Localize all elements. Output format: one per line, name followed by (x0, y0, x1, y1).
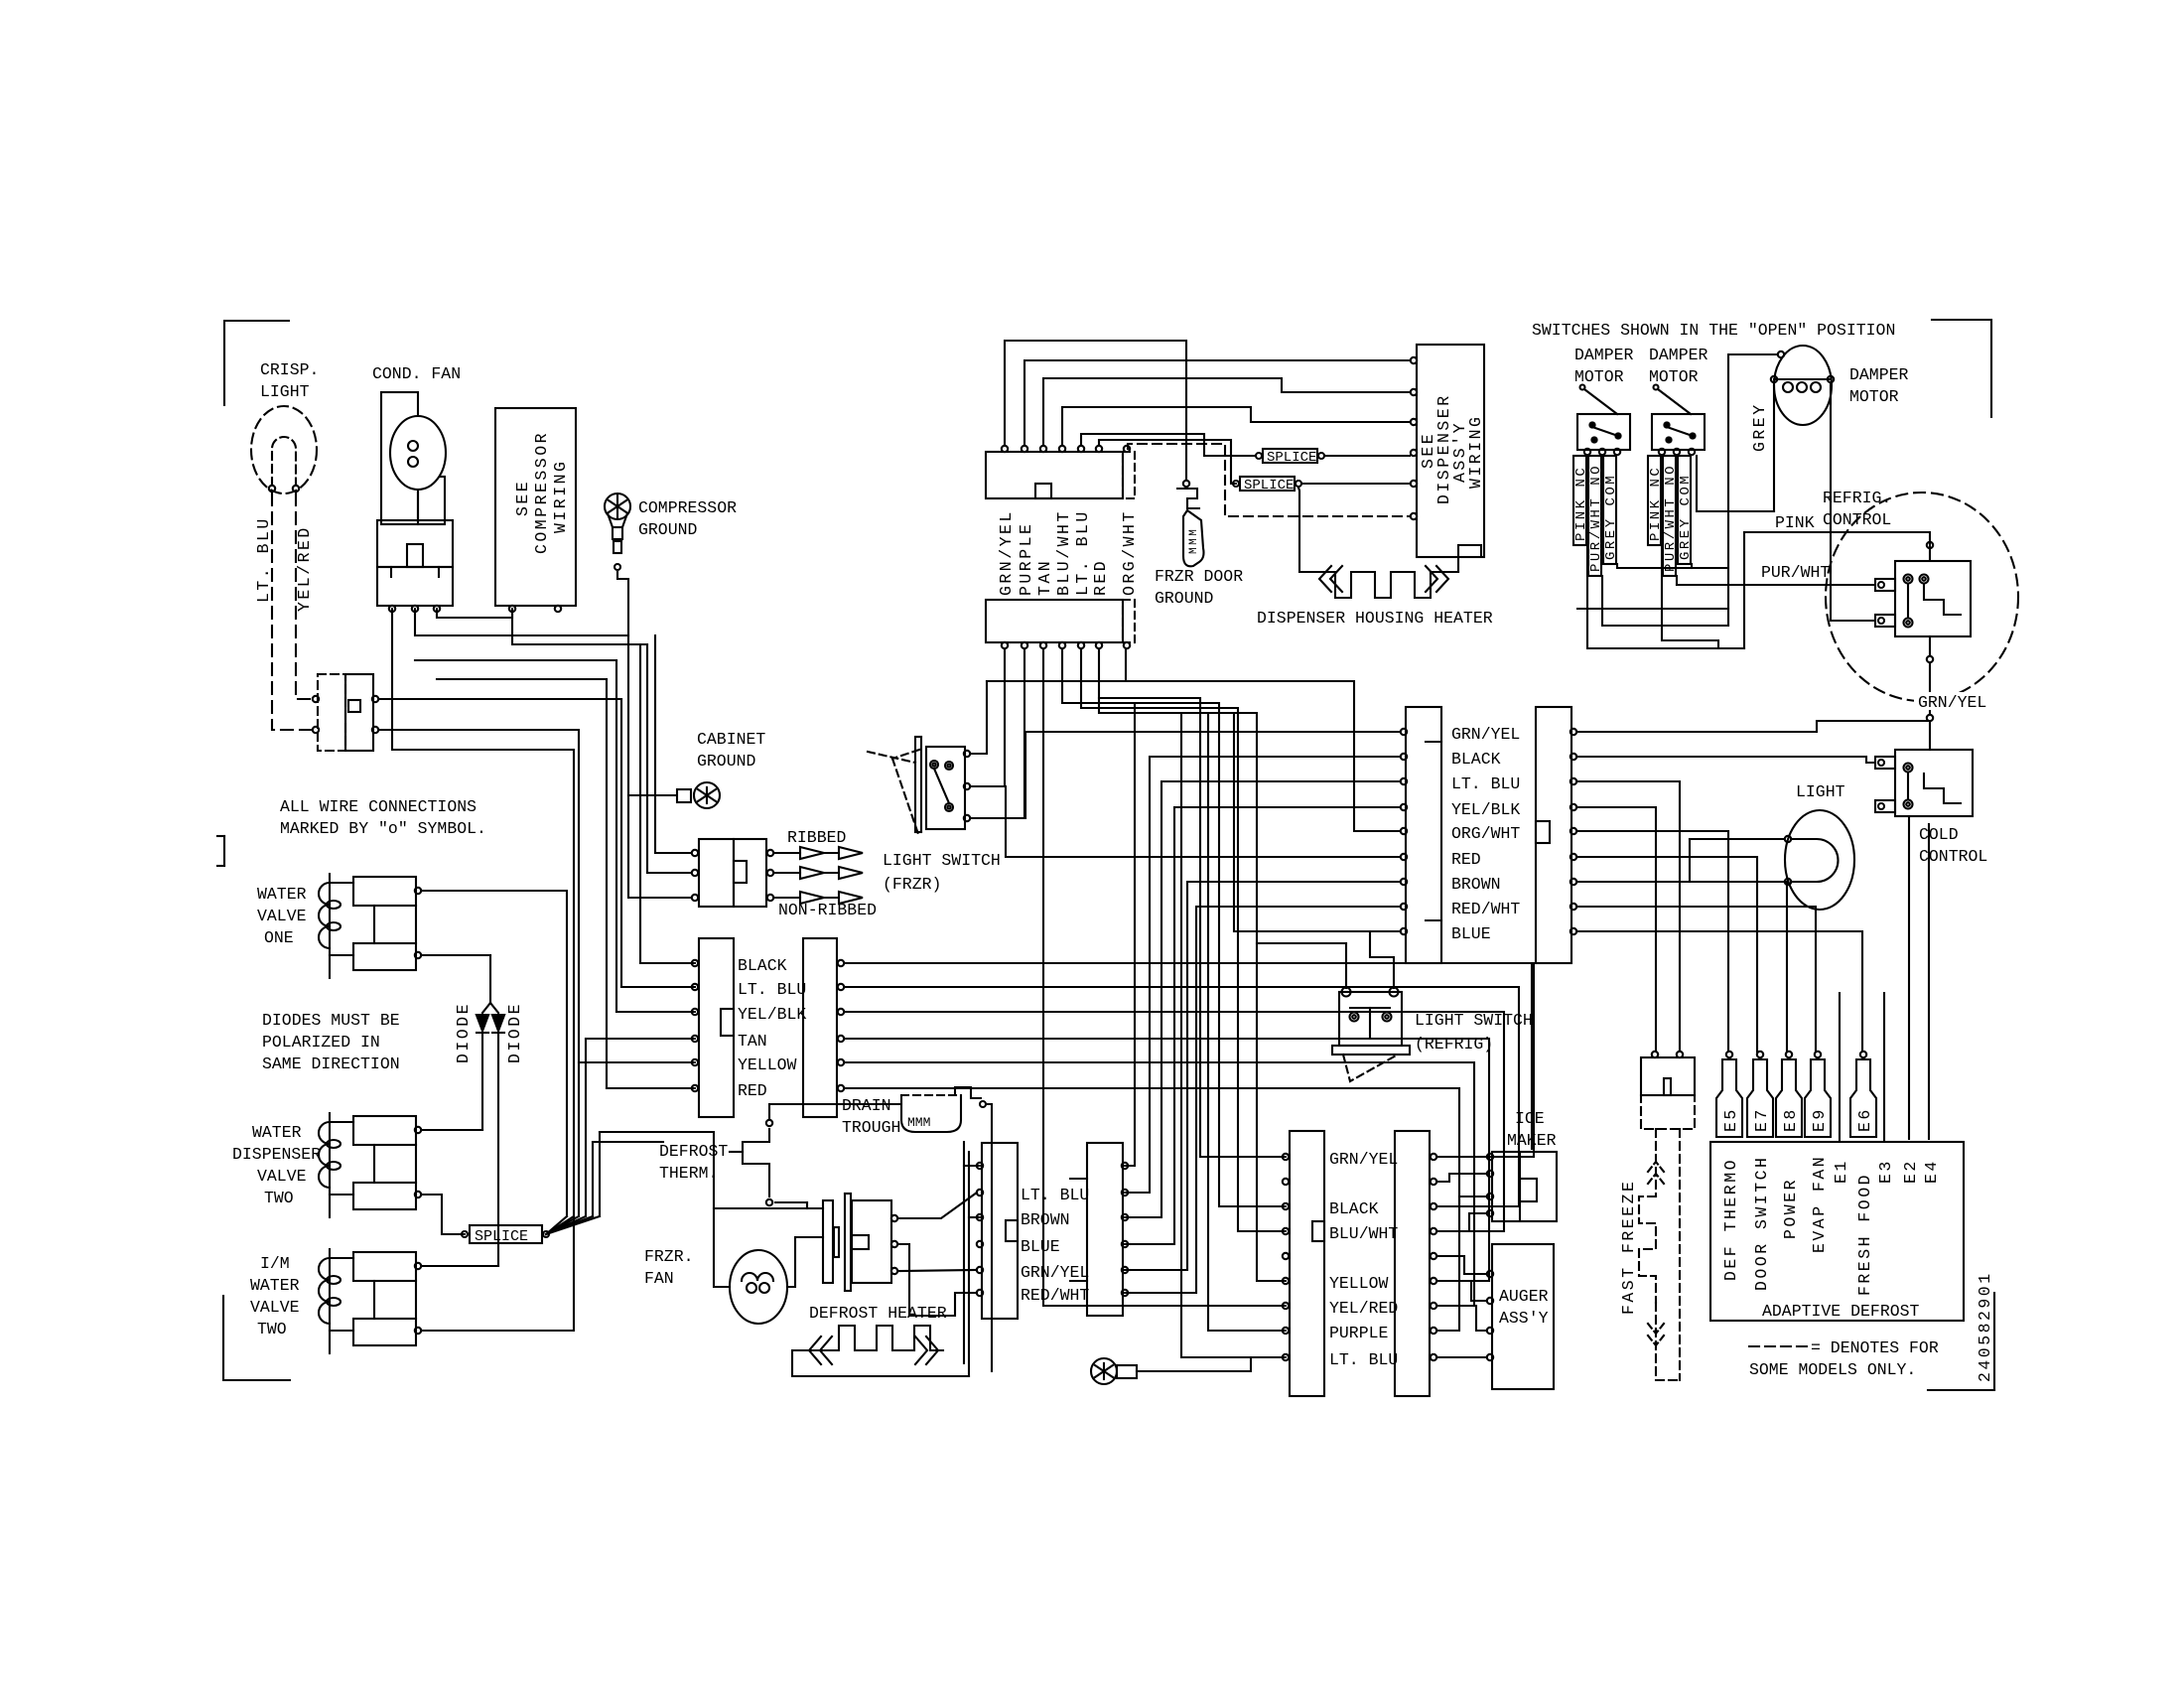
svg-text:POWER: POWER (1781, 1178, 1800, 1239)
svg-text:RIBBED: RIBBED (787, 828, 847, 847)
svg-text:MMM: MMM (1188, 527, 1200, 554)
svg-text:THERM.: THERM. (659, 1164, 718, 1183)
svg-text:WIRING: WIRING (551, 460, 570, 533)
svg-text:RED/WHT: RED/WHT (1021, 1286, 1089, 1305)
svg-text:FRZR DOOR: FRZR DOOR (1155, 567, 1243, 586)
svg-text:CABINET: CABINET (697, 730, 765, 749)
svg-text:LIGHT: LIGHT (260, 382, 310, 401)
svg-text:DAMPER: DAMPER (1649, 346, 1708, 364)
svg-text:SPLICE: SPLICE (1267, 450, 1316, 466)
svg-text:(REFRIG): (REFRIG) (1415, 1035, 1493, 1054)
svg-text:BROWN: BROWN (1021, 1210, 1070, 1229)
svg-text:DISPENSER: DISPENSER (232, 1145, 321, 1164)
svg-text:E8: E8 (1781, 1107, 1800, 1132)
svg-text:E5: E5 (1721, 1107, 1740, 1132)
svg-text:WATER: WATER (250, 1276, 300, 1295)
svg-text:DAMPER: DAMPER (1574, 346, 1634, 364)
svg-text:WATER: WATER (257, 885, 307, 904)
svg-text:GRN/YEL: GRN/YEL (997, 509, 1016, 596)
svg-text:I/M: I/M (260, 1254, 290, 1273)
svg-text:E6: E6 (1855, 1107, 1874, 1132)
svg-text:POLARIZED IN: POLARIZED IN (262, 1033, 380, 1052)
svg-text:ICE: ICE (1515, 1109, 1545, 1128)
svg-text:DIODE: DIODE (454, 1002, 473, 1063)
svg-text:SPLICE: SPLICE (1244, 478, 1294, 493)
svg-text:COMPRESSOR: COMPRESSOR (638, 498, 737, 517)
svg-text:GROUND: GROUND (1155, 589, 1214, 608)
svg-text:PUR/WHT: PUR/WHT (1761, 563, 1830, 582)
svg-text:CRISP.: CRISP. (260, 360, 319, 379)
svg-text:LT. BLU: LT. BLU (1451, 774, 1520, 793)
svg-text:SOME MODELS ONLY.: SOME MODELS ONLY. (1749, 1360, 1916, 1379)
svg-text:LIGHT: LIGHT (1796, 782, 1845, 801)
svg-text:DISPENSER HOUSING HEATER: DISPENSER HOUSING HEATER (1257, 609, 1493, 628)
svg-text:E4: E4 (1922, 1159, 1941, 1184)
svg-text:GROUND: GROUND (638, 520, 698, 539)
svg-text:DEFROST HEATER: DEFROST HEATER (809, 1304, 947, 1323)
svg-text:PINK NC: PINK NC (1573, 466, 1589, 541)
svg-text:240582901: 240582901 (1976, 1271, 1994, 1382)
svg-text:PUR/WHT NO: PUR/WHT NO (1588, 464, 1604, 572)
svg-text:ORG/WHT: ORG/WHT (1120, 509, 1139, 596)
svg-text:WATER: WATER (252, 1123, 302, 1142)
svg-text:VALVE: VALVE (250, 1298, 300, 1317)
svg-text:BLACK: BLACK (1451, 750, 1501, 769)
svg-text:DAMPER: DAMPER (1849, 365, 1909, 384)
svg-text:FAN: FAN (644, 1269, 674, 1288)
svg-text:COMPRESSOR: COMPRESSOR (532, 431, 551, 554)
svg-text:E3: E3 (1876, 1159, 1895, 1184)
svg-text:BLU/WHT: BLU/WHT (1329, 1224, 1398, 1243)
svg-text:YELLOW: YELLOW (738, 1055, 797, 1074)
svg-text:DIODE: DIODE (505, 1002, 524, 1063)
svg-text:BROWN: BROWN (1451, 875, 1501, 894)
svg-text:GRN/YEL: GRN/YEL (1918, 693, 1986, 712)
svg-text:BLACK: BLACK (738, 956, 787, 975)
svg-text:GREY COM: GREY COM (1603, 474, 1619, 560)
svg-text:RED: RED (738, 1081, 767, 1100)
svg-text:YEL/BLK: YEL/BLK (738, 1005, 806, 1024)
svg-text:LT. BLU: LT. BLU (1329, 1350, 1398, 1369)
svg-text:DEFROST: DEFROST (659, 1142, 728, 1161)
svg-text:LT. BLU: LT. BLU (1073, 509, 1092, 596)
svg-text:YELLOW: YELLOW (1329, 1274, 1389, 1293)
svg-text:FAST FREEZE: FAST FREEZE (1619, 1180, 1638, 1315)
svg-text:TWO: TWO (257, 1320, 287, 1338)
svg-text:MMM: MMM (907, 1115, 930, 1130)
svg-text:E1: E1 (1832, 1159, 1850, 1184)
svg-text:YEL/RED: YEL/RED (1329, 1299, 1398, 1318)
svg-text:MOTOR: MOTOR (1649, 367, 1699, 386)
svg-text:LIGHT SWITCH: LIGHT SWITCH (1415, 1011, 1533, 1030)
svg-text:ASS'Y: ASS'Y (1499, 1309, 1549, 1328)
svg-text:PINK: PINK (1775, 513, 1815, 532)
svg-text:SEE: SEE (513, 480, 532, 516)
svg-text:ALL WIRE CONNECTIONS: ALL WIRE CONNECTIONS (280, 797, 477, 816)
svg-text:SAME DIRECTION: SAME DIRECTION (262, 1055, 400, 1073)
svg-text:NON-RIBBED: NON-RIBBED (778, 901, 877, 919)
svg-text:E7: E7 (1752, 1107, 1771, 1132)
svg-text:LT. BLU: LT. BLU (1021, 1186, 1089, 1204)
svg-text:DOOR SWITCH: DOOR SWITCH (1752, 1156, 1771, 1291)
svg-text:SWITCHES SHOWN IN THE "OPEN" P: SWITCHES SHOWN IN THE "OPEN" POSITION (1532, 321, 1895, 340)
svg-text:BLU/WHT: BLU/WHT (1054, 509, 1073, 596)
svg-text:PURPLE: PURPLE (1017, 522, 1035, 596)
svg-text:WIRING: WIRING (1466, 415, 1485, 489)
svg-text:AUGER: AUGER (1499, 1287, 1549, 1306)
svg-text:ORG/WHT: ORG/WHT (1451, 824, 1520, 843)
svg-text:TAN: TAN (1035, 559, 1054, 596)
svg-text:MOTOR: MOTOR (1574, 367, 1624, 386)
svg-text:LT. BLU: LT. BLU (254, 516, 273, 603)
svg-text:TWO: TWO (264, 1189, 294, 1207)
svg-text:REFRIG.: REFRIG. (1823, 489, 1891, 507)
svg-text:BLUE: BLUE (1451, 924, 1491, 943)
svg-text:DEF THERMO: DEF THERMO (1721, 1158, 1740, 1281)
svg-text:MOTOR: MOTOR (1849, 387, 1899, 406)
svg-text:GROUND: GROUND (697, 752, 756, 771)
svg-text:VALVE: VALVE (257, 907, 307, 925)
svg-text:BLACK: BLACK (1329, 1199, 1379, 1218)
svg-text:TROUGH: TROUGH (842, 1118, 900, 1137)
svg-text:ADAPTIVE DEFROST: ADAPTIVE DEFROST (1762, 1302, 1920, 1321)
svg-text:YEL/RED: YEL/RED (295, 525, 314, 612)
svg-text:TAN: TAN (738, 1032, 767, 1051)
svg-text:GREY: GREY (1750, 402, 1769, 452)
svg-text:PUR/WHT NO: PUR/WHT NO (1663, 464, 1679, 572)
svg-text:(FRZR): (FRZR) (883, 875, 941, 894)
svg-text:GRN/YEL: GRN/YEL (1021, 1263, 1089, 1282)
svg-text:COLD: COLD (1919, 825, 1959, 844)
svg-text:SPLICE: SPLICE (475, 1228, 528, 1245)
svg-text:RED: RED (1091, 559, 1110, 596)
svg-text:EVAP FAN: EVAP FAN (1810, 1155, 1829, 1253)
svg-text:MARKED BY "o" SYMBOL.: MARKED BY "o" SYMBOL. (280, 819, 486, 838)
svg-text:COND. FAN: COND. FAN (372, 364, 461, 383)
svg-text:FRZR.: FRZR. (644, 1247, 694, 1266)
svg-text:VALVE: VALVE (257, 1167, 307, 1186)
svg-text:DRAIN: DRAIN (842, 1096, 891, 1115)
svg-text:PINK NC: PINK NC (1648, 466, 1664, 541)
svg-text:= DENOTES FOR: = DENOTES FOR (1811, 1338, 1939, 1357)
svg-text:LIGHT SWITCH: LIGHT SWITCH (883, 851, 1001, 870)
svg-text:FRESH FOOD: FRESH FOOD (1855, 1173, 1874, 1296)
svg-text:E2: E2 (1901, 1159, 1920, 1184)
svg-text:GRN/YEL: GRN/YEL (1329, 1150, 1398, 1169)
svg-text:RED: RED (1451, 850, 1481, 869)
svg-text:DIODES MUST BE: DIODES MUST BE (262, 1011, 400, 1030)
svg-text:YEL/BLK: YEL/BLK (1451, 800, 1520, 819)
svg-text:ONE: ONE (264, 928, 294, 947)
svg-text:GREY COM: GREY COM (1678, 474, 1694, 560)
svg-text:E9: E9 (1810, 1107, 1829, 1132)
svg-text:GRN/YEL: GRN/YEL (1451, 725, 1520, 744)
svg-text:RED/WHT: RED/WHT (1451, 900, 1520, 918)
svg-text:LT. BLU: LT. BLU (738, 980, 806, 999)
svg-text:PURPLE: PURPLE (1329, 1324, 1389, 1342)
svg-text:BLUE: BLUE (1021, 1237, 1060, 1256)
